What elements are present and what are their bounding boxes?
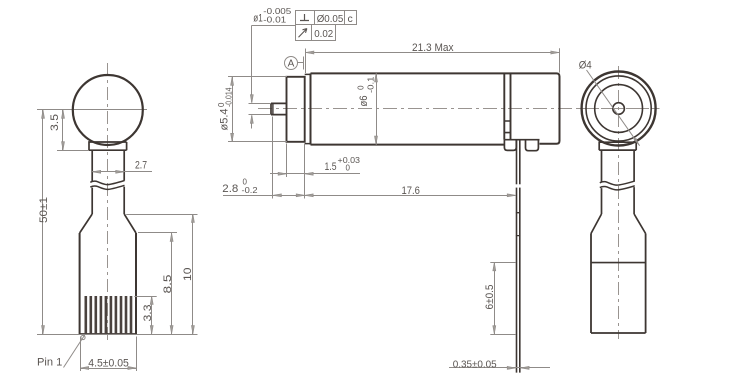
ø4 circle xyxy=(595,85,643,133)
ext lines 1.5 / 2.8 / 17.6 xyxy=(272,117,274,199)
svg-text:50±1: 50±1 xyxy=(38,197,50,223)
dim line 10 xyxy=(192,214,194,334)
dim line 3.5 xyxy=(62,110,64,150)
arrows dim 3.3 xyxy=(150,296,153,305)
datum A circle xyxy=(285,57,298,70)
svg-text:21.3 Max: 21.3 Max xyxy=(412,42,454,54)
svg-text:2.8: 2.8 xyxy=(222,183,238,195)
front cap (ø5.4 flange) xyxy=(287,77,305,142)
neck upper section xyxy=(92,150,124,181)
perpendicular symbol xyxy=(300,14,309,21)
centerline horizontal through ball xyxy=(68,109,148,111)
svg-text:c: c xyxy=(348,13,353,25)
dim line 21.3 xyxy=(305,52,559,54)
tab 1 xyxy=(504,140,516,151)
shaft chamfer line xyxy=(272,103,274,114)
svg-text:8.5: 8.5 xyxy=(162,275,174,294)
dim line 4.5±0.05 xyxy=(80,368,136,370)
ø5.4 ext lines xyxy=(228,76,287,78)
21.3 arrows xyxy=(305,51,314,54)
arrows middle view xyxy=(231,51,560,369)
arrows dim 50±1 xyxy=(42,110,45,119)
svg-text:Pin 1: Pin 1 xyxy=(37,357,62,369)
arrows left view xyxy=(42,110,195,370)
dim line 8.5 xyxy=(171,233,173,334)
FCF frame row1 xyxy=(296,11,357,25)
pin stripes (terminal pins) xyxy=(85,296,133,333)
0.35 arrows (outside) xyxy=(507,366,516,369)
svg-text:2.7: 2.7 xyxy=(135,160,147,172)
svg-text:-0.01: -0.01 xyxy=(263,15,287,24)
centerline vertical right view xyxy=(618,66,620,339)
shaft xyxy=(271,103,287,114)
ø1 ext lines xyxy=(249,103,272,105)
svg-text:Ø0.05: Ø0.05 xyxy=(317,13,344,25)
2.8 arrows xyxy=(273,194,282,197)
ext line at ball centerline xyxy=(37,109,68,111)
arrows dim 4.5±0.05 xyxy=(80,367,89,370)
arrows dim 2.7 xyxy=(92,170,101,173)
svg-text:-0.1: -0.1 xyxy=(366,76,375,93)
centerline horizontal middle view xyxy=(258,108,660,110)
FCF frame row2 xyxy=(296,25,336,41)
ball (sphere outline) xyxy=(73,75,143,145)
svg-text:ø6: ø6 xyxy=(358,96,370,107)
svg-text:0: 0 xyxy=(356,85,365,90)
neck lower right view xyxy=(602,187,635,214)
ø4 leader xyxy=(579,60,640,146)
flare (taper to body) xyxy=(80,214,136,233)
ø5.4 arrows xyxy=(231,77,234,86)
svg-text:10: 10 xyxy=(182,268,194,282)
svg-text:Ø4: Ø4 xyxy=(579,60,592,72)
end cap right side with rounded corners xyxy=(540,73,560,143)
break wavy lines right view xyxy=(600,181,635,185)
svg-text:-0.014: -0.014 xyxy=(225,87,234,107)
svg-text:ø5.4: ø5.4 xyxy=(219,109,231,131)
dim line 6±0.5 xyxy=(494,262,496,334)
centerline vertical left view xyxy=(107,63,109,341)
ext line collar top for 3.5 xyxy=(57,150,89,152)
dim line 2.7 xyxy=(92,171,152,173)
body outline xyxy=(311,73,557,144)
svg-text:ø1: ø1 xyxy=(253,13,262,25)
arrows dim 3.5 xyxy=(62,110,65,119)
svg-text:-0.2: -0.2 xyxy=(242,186,259,195)
svg-text:0.35±0.05: 0.35±0.05 xyxy=(453,358,497,370)
6±0.5 arrows xyxy=(493,262,496,271)
ext line for 21.3 left / datum xyxy=(305,49,307,74)
terminal pin long xyxy=(517,140,520,373)
center hole circle xyxy=(613,103,625,115)
svg-text:0.02: 0.02 xyxy=(314,28,333,40)
neck upper right view xyxy=(602,150,635,182)
dim line 1.5 xyxy=(270,173,360,175)
ext lines 4.5 xyxy=(80,337,82,372)
ext line body top for 8.5 xyxy=(138,232,177,234)
cap interior bottom line xyxy=(504,139,539,141)
dim line 50±1 xyxy=(42,110,44,334)
ø6 arrows xyxy=(375,73,378,82)
svg-text:6±0.5: 6±0.5 xyxy=(484,285,496,310)
svg-text:A: A xyxy=(288,59,295,70)
arrows dim 8.5 xyxy=(170,233,173,242)
arrows dim 10 xyxy=(191,214,194,223)
body bottom xyxy=(80,333,136,335)
ext line 21.3 right xyxy=(559,48,561,72)
texts left view xyxy=(37,114,194,370)
dim line 3.3 xyxy=(151,296,153,334)
dim text ø5.4 with tolerance (rotated) xyxy=(217,87,234,130)
ø1 leader arrows xyxy=(250,95,253,104)
svg-text:4.5±0.05: 4.5±0.05 xyxy=(88,358,129,370)
svg-text:3.5: 3.5 xyxy=(49,114,61,131)
body right view xyxy=(591,234,646,334)
svg-text:1.5: 1.5 xyxy=(325,161,337,173)
svg-text:17.6: 17.6 xyxy=(402,185,420,197)
ring inner circle xyxy=(586,76,651,141)
end cap internal verticals xyxy=(504,73,510,139)
centerline horizontal right view xyxy=(578,108,660,110)
dim line 0.35±0.05 xyxy=(449,367,550,369)
ø1 leader xyxy=(252,26,296,102)
outer circle (housing) xyxy=(582,72,656,146)
body sides xyxy=(80,233,136,334)
break symbol upper wavy line xyxy=(90,181,124,185)
flare right view xyxy=(591,214,646,234)
tab 2 xyxy=(526,140,539,151)
svg-text:0: 0 xyxy=(346,163,351,172)
collar under ball xyxy=(89,142,127,150)
leader Pin 1 xyxy=(64,335,86,368)
rungs between verticals xyxy=(504,121,510,133)
dim line ø6 xyxy=(376,73,378,144)
body interior line xyxy=(591,262,646,264)
ext line neck end for 10 xyxy=(126,214,197,216)
collar right view xyxy=(599,142,636,150)
17.6 arrows xyxy=(305,194,314,197)
texts middle view xyxy=(217,7,497,370)
ext line body bottom xyxy=(37,334,198,336)
dim text ø6 with tolerance (rotated) xyxy=(356,76,375,107)
svg-text:3.3: 3.3 xyxy=(142,305,154,322)
1.5 arrows (outside) xyxy=(278,172,287,175)
pin ticks xyxy=(516,213,521,236)
runout symbol arrow xyxy=(299,29,307,38)
dim line ø5.4 xyxy=(232,77,234,142)
break symbol lower wavy line xyxy=(90,185,124,189)
dim line 2.8 / 17.6 xyxy=(223,195,516,197)
ext line stripes top for 3.3 xyxy=(134,296,156,298)
step lines cap to body xyxy=(305,74,311,143)
pin break gap xyxy=(516,184,522,187)
6±0.5 ext lines xyxy=(490,262,515,264)
neck lower section xyxy=(92,187,124,214)
